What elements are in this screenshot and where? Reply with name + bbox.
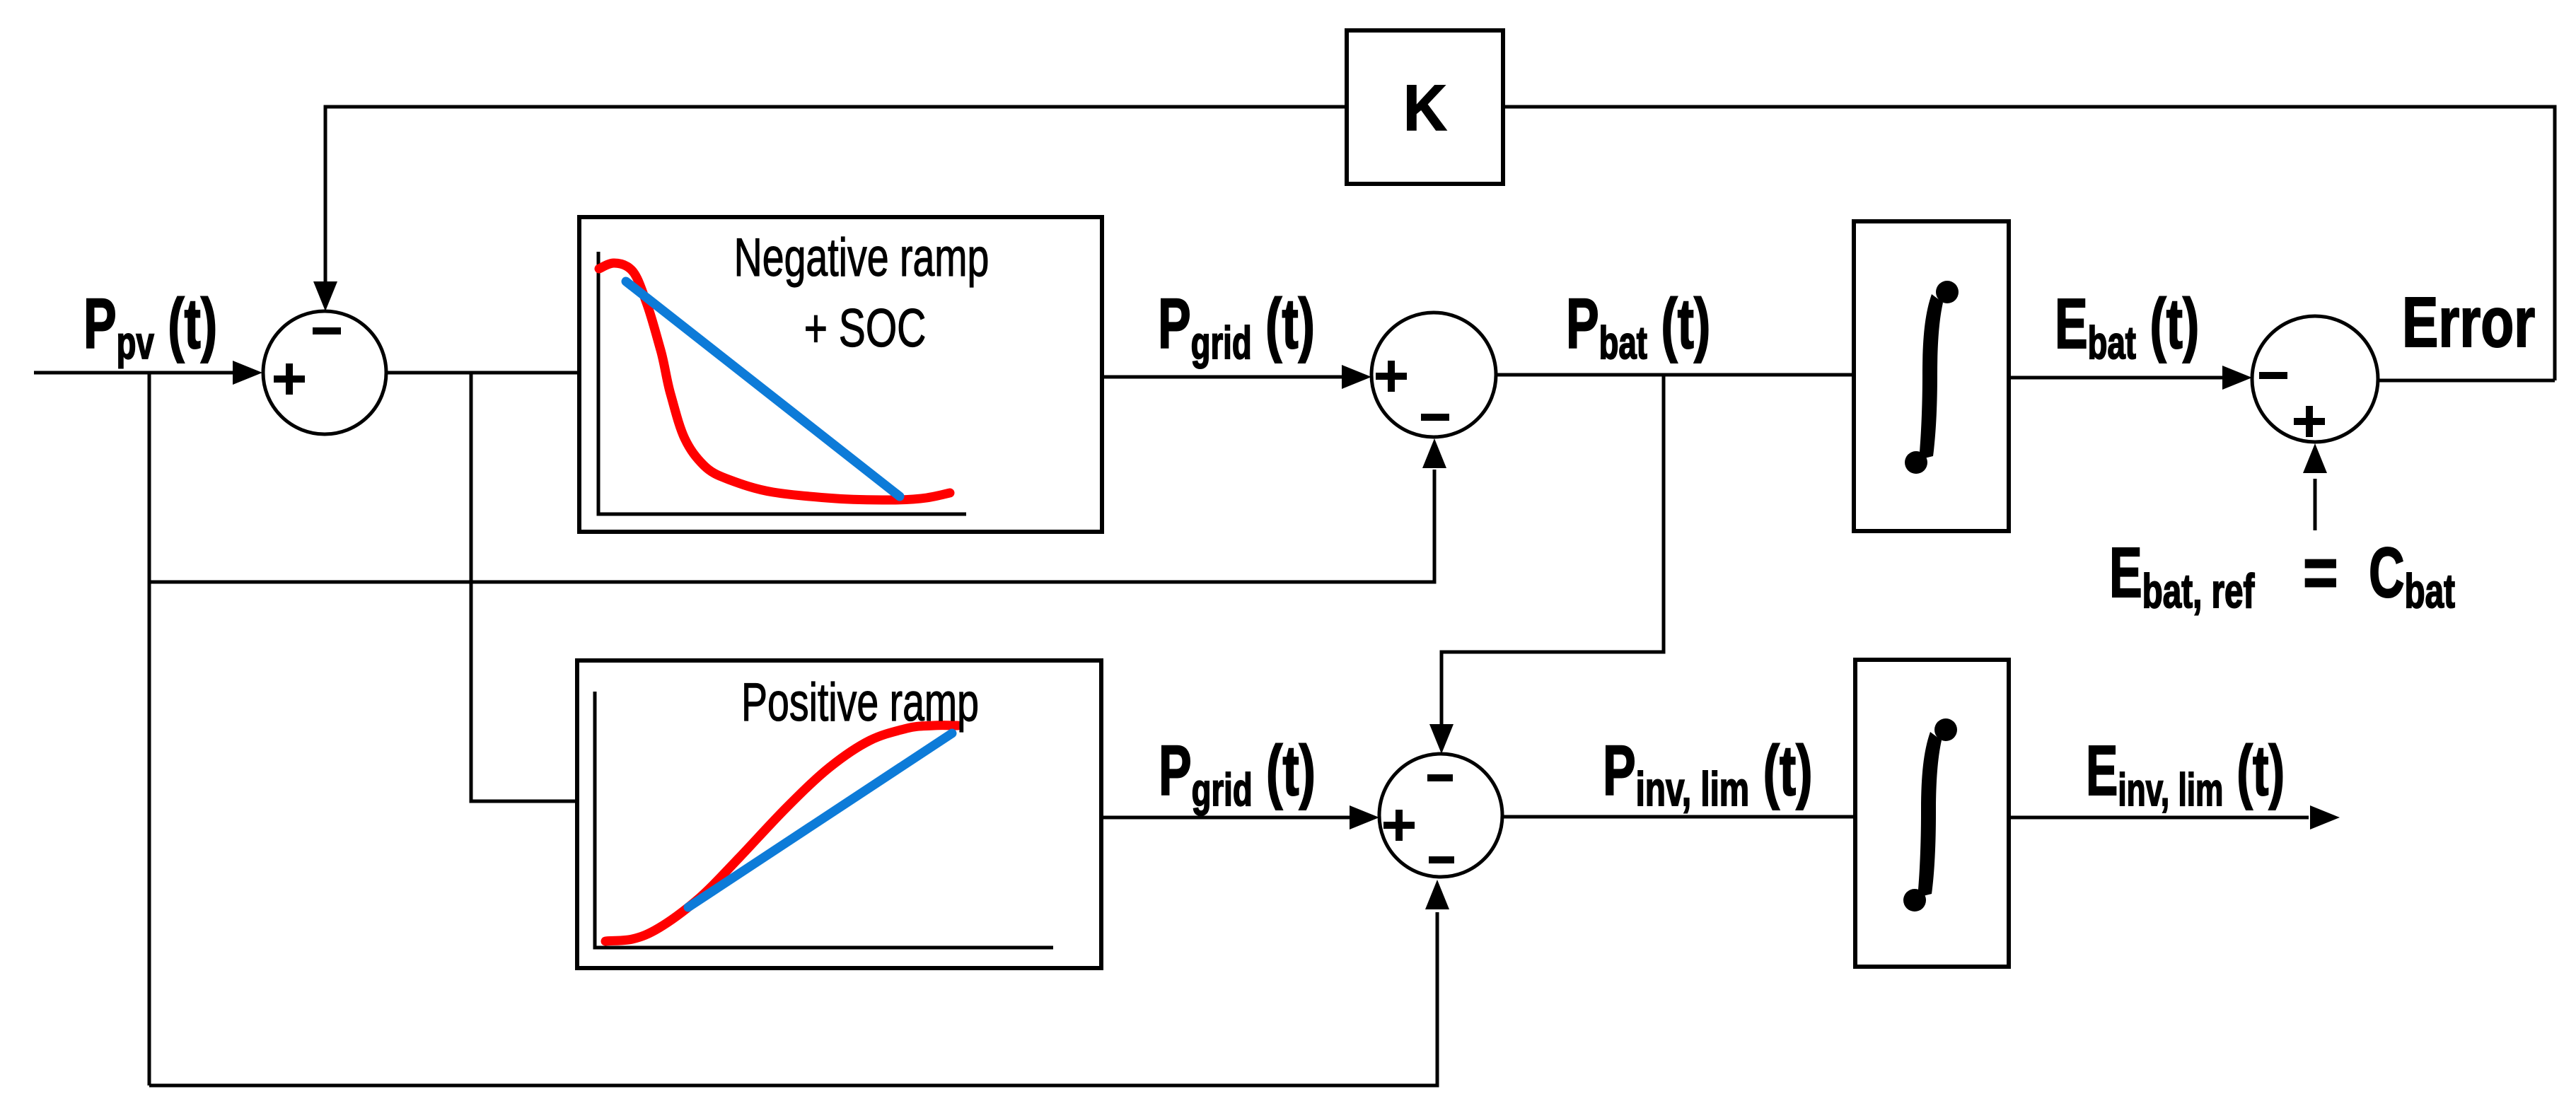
svg-text:+ SOC: + SOC bbox=[804, 298, 927, 359]
wire junction down to positive ramp bbox=[471, 373, 577, 801]
block negative ramp bbox=[579, 217, 1102, 532]
wire Pbat branch down-left into S4 top bbox=[1441, 375, 1664, 724]
wire negative ramp output bbox=[1102, 375, 1342, 379]
arrowhead into S4 bottom bbox=[1425, 880, 1449, 909]
positive ramp red curve bbox=[605, 726, 958, 941]
arrowhead into S4 left bbox=[1350, 805, 1379, 829]
summing junction S1 bbox=[263, 311, 386, 434]
wire S2 output bbox=[1496, 373, 1854, 377]
wire positive ramp output bbox=[1101, 816, 1350, 820]
wire branch vertical left bbox=[148, 373, 151, 1085]
wire feedback top bbox=[325, 107, 1347, 281]
integral symbol 2 bbox=[1903, 718, 1957, 912]
arrowhead output Einv bbox=[2310, 805, 2340, 829]
wire integrator2 output bbox=[2009, 816, 2309, 820]
block integrator 2 bbox=[1855, 660, 2009, 967]
arrowhead into S4 top bbox=[1429, 724, 1454, 754]
summing junction S2 bbox=[1371, 313, 1496, 437]
wire S3 output Error bbox=[2378, 379, 2555, 383]
summing junction S3 bbox=[2252, 316, 2378, 442]
wire feedback top right bbox=[1503, 107, 2555, 380]
arrowhead into S2 bottom bbox=[1422, 438, 1446, 468]
negative ramp blue line bbox=[626, 281, 900, 496]
svg-text:Error: Error bbox=[2402, 282, 2535, 361]
arrowhead into S1 top bbox=[313, 281, 337, 311]
wire integrator1 output bbox=[2009, 376, 2222, 380]
negative ramp red curve bbox=[599, 263, 950, 500]
svg-text:=: = bbox=[2303, 532, 2338, 612]
wire bottom horizontal to S4 bottom bbox=[149, 912, 1437, 1085]
svg-text:K: K bbox=[1403, 71, 1447, 144]
arrowhead into S2 left bbox=[1342, 365, 1371, 389]
arrowhead into S1 left bbox=[233, 361, 262, 385]
block positive ramp bbox=[577, 660, 1101, 968]
positive ramp axes bbox=[595, 692, 1053, 948]
block K bbox=[1347, 30, 1503, 184]
wire mid horizontal to S2 bottom bbox=[149, 470, 1434, 582]
arrowhead into S3 bottom bbox=[2303, 443, 2327, 473]
wire S4 output bbox=[1502, 815, 1855, 819]
arrowhead into S3 left bbox=[2222, 366, 2252, 390]
wire Ebat_ref up into S3 bottom bbox=[2314, 479, 2317, 530]
summing junction S4 bbox=[1379, 754, 1502, 877]
integral symbol 1 bbox=[1905, 281, 1959, 474]
svg-text:Positive ramp: Positive ramp bbox=[741, 673, 979, 733]
positive ramp blue line bbox=[688, 733, 952, 907]
wire S1 output bbox=[386, 371, 581, 375]
block integrator 1 bbox=[1854, 221, 2009, 531]
wire input Ppv horizontal bbox=[34, 371, 233, 375]
svg-text:Negative ramp: Negative ramp bbox=[734, 228, 990, 289]
negative ramp axes bbox=[598, 252, 966, 514]
